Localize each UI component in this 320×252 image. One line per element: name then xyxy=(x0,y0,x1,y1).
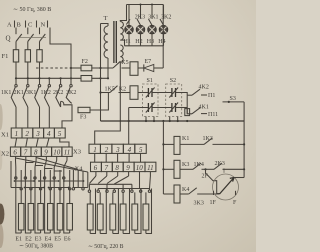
wire phase to 1K5 xyxy=(101,92,111,94)
wire 4K2 to P1 xyxy=(201,94,207,96)
fuse F1 pole A xyxy=(13,50,18,62)
left bank rails row2 xyxy=(11,187,88,189)
fuse on lower bus xyxy=(81,76,92,82)
svg-text:П11: П11 xyxy=(208,112,218,118)
wire 1K2 to X1:4 xyxy=(48,107,50,128)
wire 1K5 to K2 coil xyxy=(119,92,131,94)
wire left vertical drop (to bottom control bus) xyxy=(100,24,102,122)
wire crossing diagonal b xyxy=(36,158,78,170)
svg-text:8: 8 xyxy=(34,149,38,157)
left heater bank feed stubs from X2 xyxy=(16,156,68,160)
junction N at dashed line xyxy=(70,67,72,69)
wire X3:2 to X4:7 xyxy=(105,153,107,162)
svg-text:F3: F3 xyxy=(80,115,86,121)
junction bus branch 5 xyxy=(60,77,62,79)
junction bus2 relay feed xyxy=(162,120,164,122)
thermostat arm arrowhead xyxy=(230,178,234,182)
svg-text:9: 9 xyxy=(126,164,130,172)
svg-text:2: 2 xyxy=(25,130,29,138)
transformer T secondary lower xyxy=(120,45,123,62)
svg-text:H4: H4 xyxy=(158,39,165,45)
thermostat switch arm xyxy=(220,178,235,195)
junction bus phase C xyxy=(38,77,40,79)
relay coil K3 xyxy=(174,160,180,178)
fuse F1 pole C xyxy=(37,50,42,62)
wire X3:1 to X4:6 xyxy=(94,153,96,162)
wire contact 2K3 drop xyxy=(140,5,142,19)
svg-text:10: 10 xyxy=(53,149,61,157)
scan stain left edge xyxy=(0,104,4,248)
fuse F3 xyxy=(78,107,90,112)
junction lamp bus H2 xyxy=(140,4,142,6)
wire feed to K1 xyxy=(163,143,174,145)
svg-text:Q: Q xyxy=(6,35,11,43)
svg-text:2K3: 2K3 xyxy=(215,161,225,167)
heating element E3 xyxy=(38,204,44,231)
svg-text:X1: X1 xyxy=(1,132,9,139)
svg-text:K3: K3 xyxy=(182,162,189,168)
terminal X1 numbers xyxy=(15,130,62,138)
transformer T primary winding xyxy=(104,26,108,58)
heating element E5 xyxy=(57,204,63,231)
wire 2K2 hop detour to X1:5 xyxy=(61,101,72,127)
svg-text:H1: H1 xyxy=(124,39,131,45)
middle bank element bottom stubs xyxy=(90,230,146,234)
wire N run xyxy=(50,28,71,85)
switch Q pole C xyxy=(40,34,46,42)
contact 3K3 blade xyxy=(189,188,197,194)
svg-text:S1: S1 xyxy=(147,78,153,84)
wire B to fuse xyxy=(27,42,29,50)
svg-text:I: I xyxy=(223,169,225,175)
riser 4K1 xyxy=(186,95,188,114)
junction bus2 S1 a xyxy=(145,120,147,122)
wire lamp H2 bottom xyxy=(140,34,142,46)
junction bus2 X3 drop xyxy=(128,120,130,122)
svg-text:3K3: 3K3 xyxy=(194,200,204,206)
terminal strip X1 xyxy=(11,128,65,138)
svg-text:10: 10 xyxy=(136,164,144,172)
wire lamp H4 bottom xyxy=(163,34,165,46)
wire F2 to K5 branch xyxy=(92,67,113,69)
contact 2K1 xyxy=(23,85,29,108)
lamp H3 xyxy=(148,25,157,34)
svg-text:11: 11 xyxy=(147,164,153,172)
wire X1:2 to X2:7 xyxy=(26,138,28,147)
heating element bank2 #6 xyxy=(143,204,149,230)
wire S2 out row1 xyxy=(176,93,188,96)
wire X1:4 to X2:9 xyxy=(47,138,49,147)
junction feed K3 xyxy=(162,168,164,170)
wire lamp H3 bottom xyxy=(151,34,153,46)
lower phase bus xyxy=(16,77,81,79)
junction right bus 1K3 xyxy=(243,143,245,145)
svg-text:F2: F2 xyxy=(82,59,88,65)
switch Q pole B xyxy=(28,34,34,42)
terminal strip X4 xyxy=(91,162,156,171)
left bank feed diagonals xyxy=(16,161,68,168)
left bank element bottom stubs xyxy=(21,230,69,233)
relay coil K4 xyxy=(174,185,180,203)
wire X1:3 to X2:8 xyxy=(36,138,38,147)
dashed control feed wire xyxy=(36,67,70,69)
relay coil K2 xyxy=(130,86,138,100)
wire 4K1 to P11 xyxy=(201,113,207,115)
wire S2 stub bottom a xyxy=(169,117,171,122)
terminal strip X3 xyxy=(89,144,146,153)
wire X3:3 to X4:8 xyxy=(117,153,119,162)
contact 2K2 xyxy=(56,85,62,108)
svg-text:1K1: 1K1 xyxy=(1,90,11,96)
wire S1 row2 feed drop to X3:4 xyxy=(128,108,130,145)
svg-text:2: 2 xyxy=(105,146,109,154)
contact 4K2 blade xyxy=(192,89,200,95)
heating element E1 xyxy=(18,204,24,231)
wire 1K1 to X1:1 xyxy=(15,107,17,128)
wire 3K2 join xyxy=(71,102,72,104)
wire X1:1 to X2:6 xyxy=(15,138,17,147)
svg-text:K5: K5 xyxy=(121,60,128,66)
heating element bank2 #1 xyxy=(87,204,93,230)
wire X1:5 step to X2:11 xyxy=(60,138,69,147)
svg-text:1F: 1F xyxy=(210,200,217,206)
wire C fuse to contact branch xyxy=(39,62,41,85)
svg-text:3: 3 xyxy=(35,130,40,138)
junction right bus 2K3 xyxy=(243,168,245,170)
wire 2K1 to X1:2 xyxy=(27,107,29,128)
svg-text:3K2: 3K2 xyxy=(161,14,171,20)
thermostat fixed contact F xyxy=(235,191,237,195)
wire S2 stub bottom b xyxy=(177,117,179,122)
wire phase A stub xyxy=(15,28,17,35)
middle bank feed stubs from X4 xyxy=(96,172,150,176)
junction bus2 S2 b xyxy=(177,120,179,122)
svg-text:E5: E5 xyxy=(54,237,61,243)
contact 3K2 blade xyxy=(160,19,164,25)
transformer T core xyxy=(114,21,116,63)
lamp H2 xyxy=(136,25,145,34)
svg-text:4K1: 4K1 xyxy=(199,105,209,111)
junction bus2 S2 a xyxy=(169,120,171,122)
lamp return bus xyxy=(125,45,164,47)
heating element E2 xyxy=(28,204,34,231)
svg-text:∼ 50Гц, 220 В: ∼ 50Гц, 220 В xyxy=(88,244,124,250)
left bank rail junctions xyxy=(14,180,85,188)
contact 2K3 blade xyxy=(137,19,141,25)
terminal X4 numbers xyxy=(94,164,154,172)
left bank element top wires xyxy=(21,170,69,204)
junction bus2 S1 b xyxy=(153,120,155,122)
svg-text:H2: H2 xyxy=(135,39,142,45)
contact 1K4 blade xyxy=(193,163,201,169)
heating element bank2 #2 xyxy=(97,204,103,230)
wire primary bottom down xyxy=(107,58,109,78)
svg-text:C: C xyxy=(28,22,32,29)
svg-text:9: 9 xyxy=(44,149,48,157)
svg-text:∼ 50Гц, 380В: ∼ 50Гц, 380В xyxy=(19,244,53,250)
switch S2 contact 1 xyxy=(169,88,178,98)
contact 2F blade and wire to thermostat xyxy=(206,169,220,193)
wire F3 to K2 line xyxy=(90,93,108,111)
wire lower bus to transformer xyxy=(92,77,108,79)
contact 1K2 xyxy=(45,85,51,108)
lamp top bus xyxy=(127,4,164,6)
left bank extra verticals xyxy=(11,161,88,188)
svg-text:7: 7 xyxy=(24,149,28,157)
transformer T secondary upper xyxy=(120,22,123,41)
middle bank pin stubs xyxy=(89,184,149,190)
wire 3K1 to X1:3 xyxy=(39,107,41,128)
svg-text:T: T xyxy=(104,15,108,22)
svg-text:E4: E4 xyxy=(45,237,52,243)
wire branch4 from bus xyxy=(48,78,50,84)
riser lamp bus to diode xyxy=(162,5,164,69)
svg-text:11: 11 xyxy=(64,149,70,157)
connector pin box xyxy=(185,109,190,116)
fuse F1 pole B xyxy=(25,50,30,62)
wire K5 to diode E7 xyxy=(138,67,144,69)
wire feed to K3 xyxy=(163,168,174,170)
svg-text:3K1: 3K1 xyxy=(26,90,36,96)
wire A fuse to contact branch xyxy=(15,62,17,85)
heating element E6 xyxy=(67,204,73,231)
svg-text:2K3: 2K3 xyxy=(135,14,145,20)
wire staircase jogs below X2 xyxy=(25,163,62,172)
contact blade over H1 xyxy=(126,19,130,24)
svg-text:H3: H3 xyxy=(147,39,154,45)
svg-text:3: 3 xyxy=(115,146,120,154)
wire 1K3 to right bus xyxy=(213,143,245,145)
relay feed riser xyxy=(162,121,164,194)
wire lamp H1 bottom xyxy=(128,34,130,46)
switch S2 contact 2 xyxy=(169,103,178,113)
junction S3 xyxy=(228,101,230,103)
contact 1K3 blade xyxy=(204,138,212,144)
left bank rails row1 xyxy=(15,180,84,182)
svg-text:6: 6 xyxy=(94,164,98,172)
svg-text:5: 5 xyxy=(58,130,62,138)
wire primary top to left drop xyxy=(101,24,109,27)
junction bus branch 4 xyxy=(48,77,50,79)
wire crossing diagonal a xyxy=(16,158,88,172)
terminal X3 numbers xyxy=(93,146,143,154)
svg-text:E6: E6 xyxy=(64,237,71,243)
junction N at lower bus xyxy=(70,77,72,79)
relay coil K1 xyxy=(174,136,180,154)
heating element E4 xyxy=(48,204,54,231)
wire thermostat to right bus xyxy=(234,177,244,179)
svg-text:1: 1 xyxy=(15,130,19,138)
wire K1 to 1K3 xyxy=(180,143,204,145)
lamp H1 xyxy=(125,25,134,34)
wire phase B stub xyxy=(27,28,29,35)
wire branch5 from bus xyxy=(60,78,62,84)
junction bus phase B xyxy=(27,77,29,79)
svg-text:2K1: 2K1 xyxy=(14,90,24,96)
wire B fuse to contact branch xyxy=(27,62,29,85)
middle bank feed diagonals xyxy=(89,176,150,189)
wire contact 3K2 drop xyxy=(163,5,165,19)
wire S1 to S2 row1 xyxy=(152,92,172,94)
wire dashed end to fuse F2 xyxy=(70,67,81,69)
junction left drop at K5 line xyxy=(99,67,101,69)
heating element bank2 #4 xyxy=(120,204,126,230)
switch S1 enclosure xyxy=(142,84,158,117)
thermostat F dial xyxy=(213,174,239,200)
wire S2 out row2 xyxy=(176,107,188,109)
wire A to fuse xyxy=(15,42,17,50)
terminal X2 numbers xyxy=(13,149,70,157)
junction primary bottom xyxy=(107,77,109,79)
wire to contact 4K1 xyxy=(187,108,192,114)
wire diode to right riser xyxy=(154,67,163,69)
svg-text:S2: S2 xyxy=(170,78,176,84)
junction bus phase A xyxy=(15,77,17,79)
middle bank pass wires to element bottoms xyxy=(90,189,151,234)
svg-text:1: 1 xyxy=(93,146,97,154)
paper background xyxy=(0,0,256,252)
wire 1K4 to 2K3 xyxy=(202,168,215,170)
left bank connector pins row1 xyxy=(15,177,65,179)
contact 3K2 xyxy=(66,85,72,104)
phase separator bars xyxy=(15,21,48,28)
wire X3:5 to X4:10 xyxy=(140,153,142,162)
control bottom bus xyxy=(101,120,245,122)
contact 1K5 blade xyxy=(110,86,118,93)
heating element bank2 #3 xyxy=(110,204,116,230)
heating element bank2 #5 xyxy=(132,204,138,230)
wire lamp H1 drop xyxy=(128,5,130,26)
switch S1 contact 1 xyxy=(146,88,155,98)
wire secondary upper bottom to lamp return xyxy=(120,40,124,46)
svg-text:∼ 50 Гц, 380 В: ∼ 50 Гц, 380 В xyxy=(13,7,51,13)
svg-text:3K1: 3K1 xyxy=(148,14,158,20)
switch Q mechanical link xyxy=(19,37,46,39)
svg-text:8: 8 xyxy=(115,164,119,172)
wire contact 3K1 drop xyxy=(151,5,153,19)
left bank connector pins row2 xyxy=(20,188,84,190)
wire S1 stub bottom b xyxy=(153,117,155,122)
wire secondary upper top to lamp bus xyxy=(120,5,126,22)
switch S2 enclosure xyxy=(166,84,182,117)
svg-text:7: 7 xyxy=(105,164,109,172)
svg-text:5: 5 xyxy=(139,146,143,154)
junction 2F branch xyxy=(204,168,206,170)
contact blade before K5 xyxy=(113,61,121,68)
svg-text:K1: K1 xyxy=(182,136,189,142)
svg-text:4: 4 xyxy=(47,130,51,138)
svg-text:X2: X2 xyxy=(1,151,9,158)
junction feed K1 xyxy=(162,143,164,145)
svg-text:F1: F1 xyxy=(2,53,9,60)
svg-text:E3: E3 xyxy=(35,237,42,243)
lamp H4 xyxy=(159,25,168,34)
junction transformer feed xyxy=(99,77,101,79)
contact 3K1 blade xyxy=(149,19,153,25)
svg-text:П1: П1 xyxy=(208,93,215,99)
relay coil K5 xyxy=(130,62,138,76)
svg-text:S3: S3 xyxy=(230,96,236,102)
wire C to fuse xyxy=(39,42,41,50)
wire K2 coil to switch S1 xyxy=(138,92,148,94)
svg-text:A: A xyxy=(7,22,12,29)
svg-text:E7: E7 xyxy=(145,59,152,65)
switch Q pole A xyxy=(16,34,22,42)
wire feed to K4 xyxy=(163,193,174,195)
wire 3K3 to thermostat pivot xyxy=(197,193,219,195)
wire S1 to S2 row2 xyxy=(152,107,172,109)
thermostat fixed contact 1F xyxy=(213,191,215,195)
wire feed S1 row2 xyxy=(129,107,149,109)
wire X3:4 to X4:9 xyxy=(128,153,130,162)
wire secondary lower bottom to X3 terminal 1 xyxy=(95,62,121,144)
junction lamp bus H3 xyxy=(151,4,153,6)
contact 2K3 blade xyxy=(214,163,222,169)
contact 4K1 blade xyxy=(192,108,200,114)
wire 2K3 to right bus xyxy=(223,168,245,170)
junction bus2 P-branch xyxy=(186,120,188,122)
svg-text:B: B xyxy=(17,22,22,29)
contact 1K1 xyxy=(11,85,17,108)
diode E7 xyxy=(144,64,154,71)
fuse F2 xyxy=(81,65,92,71)
svg-text:N: N xyxy=(41,22,46,29)
svg-text:E1: E1 xyxy=(15,237,22,243)
wire S3 top run xyxy=(223,101,245,103)
right bus riser xyxy=(243,102,245,178)
middle bank element top wires xyxy=(90,192,146,204)
middle bank rail row1 xyxy=(89,183,131,185)
svg-text:4: 4 xyxy=(128,146,132,154)
middle bank connector pins xyxy=(88,190,150,192)
svg-text:Х3: Х3 xyxy=(73,149,81,156)
wire K4 to 3K3 xyxy=(180,193,189,195)
svg-text:6: 6 xyxy=(13,149,17,157)
wire S1 stub bottom a xyxy=(145,117,147,122)
switch S1 contact 2 xyxy=(146,103,155,113)
wire to contact 4K2 xyxy=(187,94,192,96)
left bank pass wires to element bottoms xyxy=(16,167,70,233)
wire phase C stub xyxy=(39,28,41,35)
terminal strip X2 xyxy=(10,147,72,156)
svg-text:E2: E2 xyxy=(25,237,32,243)
svg-text:K4: K4 xyxy=(182,187,189,193)
wire blade to K5 coil xyxy=(122,67,131,69)
middle bank rail row2 xyxy=(98,188,149,190)
junction left drop at phase bus xyxy=(99,91,101,93)
contact 3K1 xyxy=(35,85,41,108)
svg-text:K2: K2 xyxy=(119,87,126,93)
wire K3 to 1K4 xyxy=(180,168,193,170)
